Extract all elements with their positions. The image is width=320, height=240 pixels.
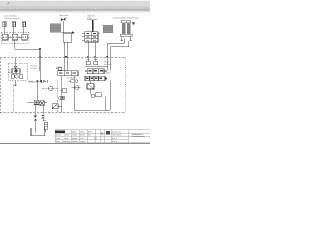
title block heading	[55, 130, 65, 133]
system boundary (dashed)	[0, 58, 126, 113]
riser pipe (double)	[92, 20, 94, 32]
gauge G2	[75, 85, 79, 89]
hatched tank H1	[50, 24, 61, 33]
svg-text:Einheit: Einheit	[30, 67, 37, 70]
title block texts row3	[56, 137, 97, 140]
valve V1	[2, 34, 8, 40]
toolbar band	[0, 0, 150, 1]
title block texts row4	[56, 140, 85, 143]
junction tick B	[64, 56, 68, 58]
wire return loop	[74, 76, 110, 111]
wire to pump	[15, 58, 17, 67]
wire drain to funnel	[62, 21, 72, 33]
drop row 2 group	[68, 80, 78, 83]
junction tick E	[106, 56, 108, 58]
valve stack S1	[82, 32, 100, 42]
wire machine to manifold	[107, 39, 124, 71]
valve assembly A1	[58, 71, 78, 76]
svg-text:Ventilblock: Ventilblock	[66, 77, 76, 80]
title block texts row1	[72, 130, 92, 133]
drain valve DV1	[34, 116, 37, 121]
gauge row: valve G2a	[19, 75, 22, 78]
svg-text:Chr.: Chr.	[88, 134, 92, 137]
wire stack outlets	[88, 42, 95, 61]
label regulator pair	[104, 60, 112, 65]
sub enclosure left valve set	[56, 66, 62, 69]
title block logo mark	[106, 131, 110, 134]
regulator R1	[86, 59, 90, 64]
assembly A1 marks	[59, 72, 76, 73]
filter mark	[44, 124, 48, 126]
boundary line left (dash-dot)	[12, 85, 14, 113]
wire tank inlet	[34, 121, 36, 133]
gauge G1 line	[42, 88, 57, 90]
sheet bottom border	[0, 142, 150, 144]
stack cell marks	[87, 33, 96, 41]
sensor cluster SC1	[61, 89, 67, 93]
svg-text:Name: Name	[72, 134, 77, 137]
wire manifold links	[28, 102, 48, 115]
junction tick D	[94, 56, 96, 58]
wire A1 drop	[61, 76, 63, 96]
manifold mark	[35, 102, 37, 104]
wire pump outlet	[15, 81, 17, 85]
svg-text:Blatt: Blatt	[88, 130, 92, 133]
filter FL1	[44, 122, 48, 129]
svg-text:Masst.: Masst.	[72, 137, 78, 140]
svg-text:Bearb.: Bearb.	[56, 134, 62, 137]
pump P1	[12, 69, 20, 74]
gauge G3	[91, 94, 95, 98]
svg-text:Datum: Datum	[72, 140, 78, 143]
bank B1 marks	[86, 78, 102, 80]
svg-text:Zust.: Zust.	[56, 140, 61, 143]
accumulator ACC1	[87, 84, 94, 89]
svg-text:Änderung: Änderung	[62, 140, 70, 143]
svg-text:Norm: Norm	[64, 137, 69, 140]
hatched block H2	[103, 25, 113, 32]
svg-text:Manual Stations: Manual Stations	[4, 14, 17, 17]
regulator R2	[94, 59, 98, 64]
wire coupling stems	[4, 27, 24, 34]
manual station enclosure (dashed)	[1, 32, 29, 43]
check valve K3	[14, 66, 17, 68]
svg-text:Datum: Datum	[64, 134, 70, 137]
tank T1	[31, 128, 45, 136]
coupling C3	[22, 22, 25, 27]
solenoid valve SV2	[52, 104, 62, 113]
svg-text:Zeichn.-Nr.: Zeichn.-Nr.	[112, 130, 122, 133]
bank B1 end cone	[105, 77, 107, 81]
valve V2	[12, 34, 18, 40]
wire regulator rail	[85, 66, 108, 68]
canvas background	[0, 0, 150, 150]
gauge G2 stub	[72, 87, 81, 89]
title block name cell	[132, 133, 145, 138]
drain mark pump	[14, 84, 17, 86]
svg-text:Werk: Werk	[80, 130, 84, 133]
coupling C2	[12, 22, 15, 27]
arrow drop row	[43, 80, 46, 82]
svg-text:(Manual Coupling): (Manual Coupling)	[4, 17, 19, 20]
valve assembly A2	[85, 69, 107, 74]
svg-text:Filter: Filter	[88, 17, 93, 20]
wire P2 to SV2	[61, 100, 63, 106]
gauge row: gauge G1a	[15, 75, 18, 78]
valve bank B1	[85, 76, 105, 80]
shutoff S2	[37, 80, 42, 83]
funnel F1	[63, 33, 72, 71]
manifold block MB1	[34, 100, 38, 104]
wire station outlet	[15, 40, 40, 71]
valve V3	[22, 34, 28, 40]
check valve K2	[19, 36, 20, 38]
svg-text:Ers. d.: Ers. d.	[112, 140, 118, 143]
wire accumulator down	[90, 89, 92, 95]
svg-text:Ers. f.: Ers. f.	[112, 137, 117, 140]
label pump left	[8, 69, 12, 74]
svg-text:4kW: 4kW	[8, 71, 12, 74]
ruler bar	[0, 9, 150, 10]
toolbar cursor icon	[7, 2, 10, 5]
wire drop to manifold	[36, 81, 38, 100]
svg-text:DN40: DN40	[105, 71, 111, 74]
title block texts row2	[56, 134, 92, 137]
wire sensor drop	[105, 97, 107, 110]
svg-text:102-445-07: 102-445-07	[112, 134, 122, 137]
title block	[55, 130, 150, 143]
label pump group right	[28, 65, 38, 83]
svg-text:minderer: minderer	[104, 63, 112, 66]
throttle valve TV1	[60, 18, 66, 22]
svg-text:Drain valve: Drain valve	[59, 14, 68, 17]
svg-text:Bl.1: Bl.1	[94, 137, 97, 140]
wire filter to tank	[43, 119, 46, 132]
assembly A2 marks	[89, 70, 103, 71]
label manual stations title	[4, 14, 20, 20]
svg-text:Entwässerung: Entwässerung	[132, 135, 145, 138]
coupling C1	[3, 22, 6, 27]
gear pump P2	[59, 96, 65, 99]
sensor tag M1a	[133, 22, 135, 24]
drain valve DV2	[41, 115, 44, 119]
junction tick C	[87, 56, 89, 58]
pilot valve PV1	[56, 67, 62, 70]
gauge row: valve G0	[11, 75, 14, 78]
accumulator mark	[87, 84, 94, 89]
svg-text:Name: Name	[80, 140, 85, 143]
title block mid texts	[112, 130, 122, 143]
svg-text:1:10: 1:10	[80, 137, 84, 140]
wire machine pipe B	[111, 41, 129, 71]
wire bank riser	[90, 81, 92, 84]
junction arrow A	[39, 48, 41, 50]
solenoid valve SV1	[40, 101, 45, 106]
wire station drop	[39, 71, 41, 81]
svg-text:Gepr.: Gepr.	[56, 137, 61, 140]
sensor box SB1	[96, 93, 102, 97]
gauge G1	[49, 86, 53, 90]
arrow funnel inlet	[72, 31, 75, 33]
wire valve link line	[8, 36, 29, 38]
junction tick A2	[39, 56, 41, 58]
pump group enclosure (dashed)	[8, 64, 27, 81]
boundary line mid (dash-dot)	[57, 80, 59, 112]
svg-text:01.02: 01.02	[80, 134, 85, 137]
check valve K1	[10, 36, 11, 38]
drain machine M1	[120, 21, 132, 41]
wire label underline	[87, 19, 97, 21]
label filter unit	[88, 15, 95, 20]
anchor bar drop row	[47, 80, 49, 83]
svg-text:Seitenansicht Entwässerung: Seitenansicht Entwässerung	[113, 17, 138, 20]
